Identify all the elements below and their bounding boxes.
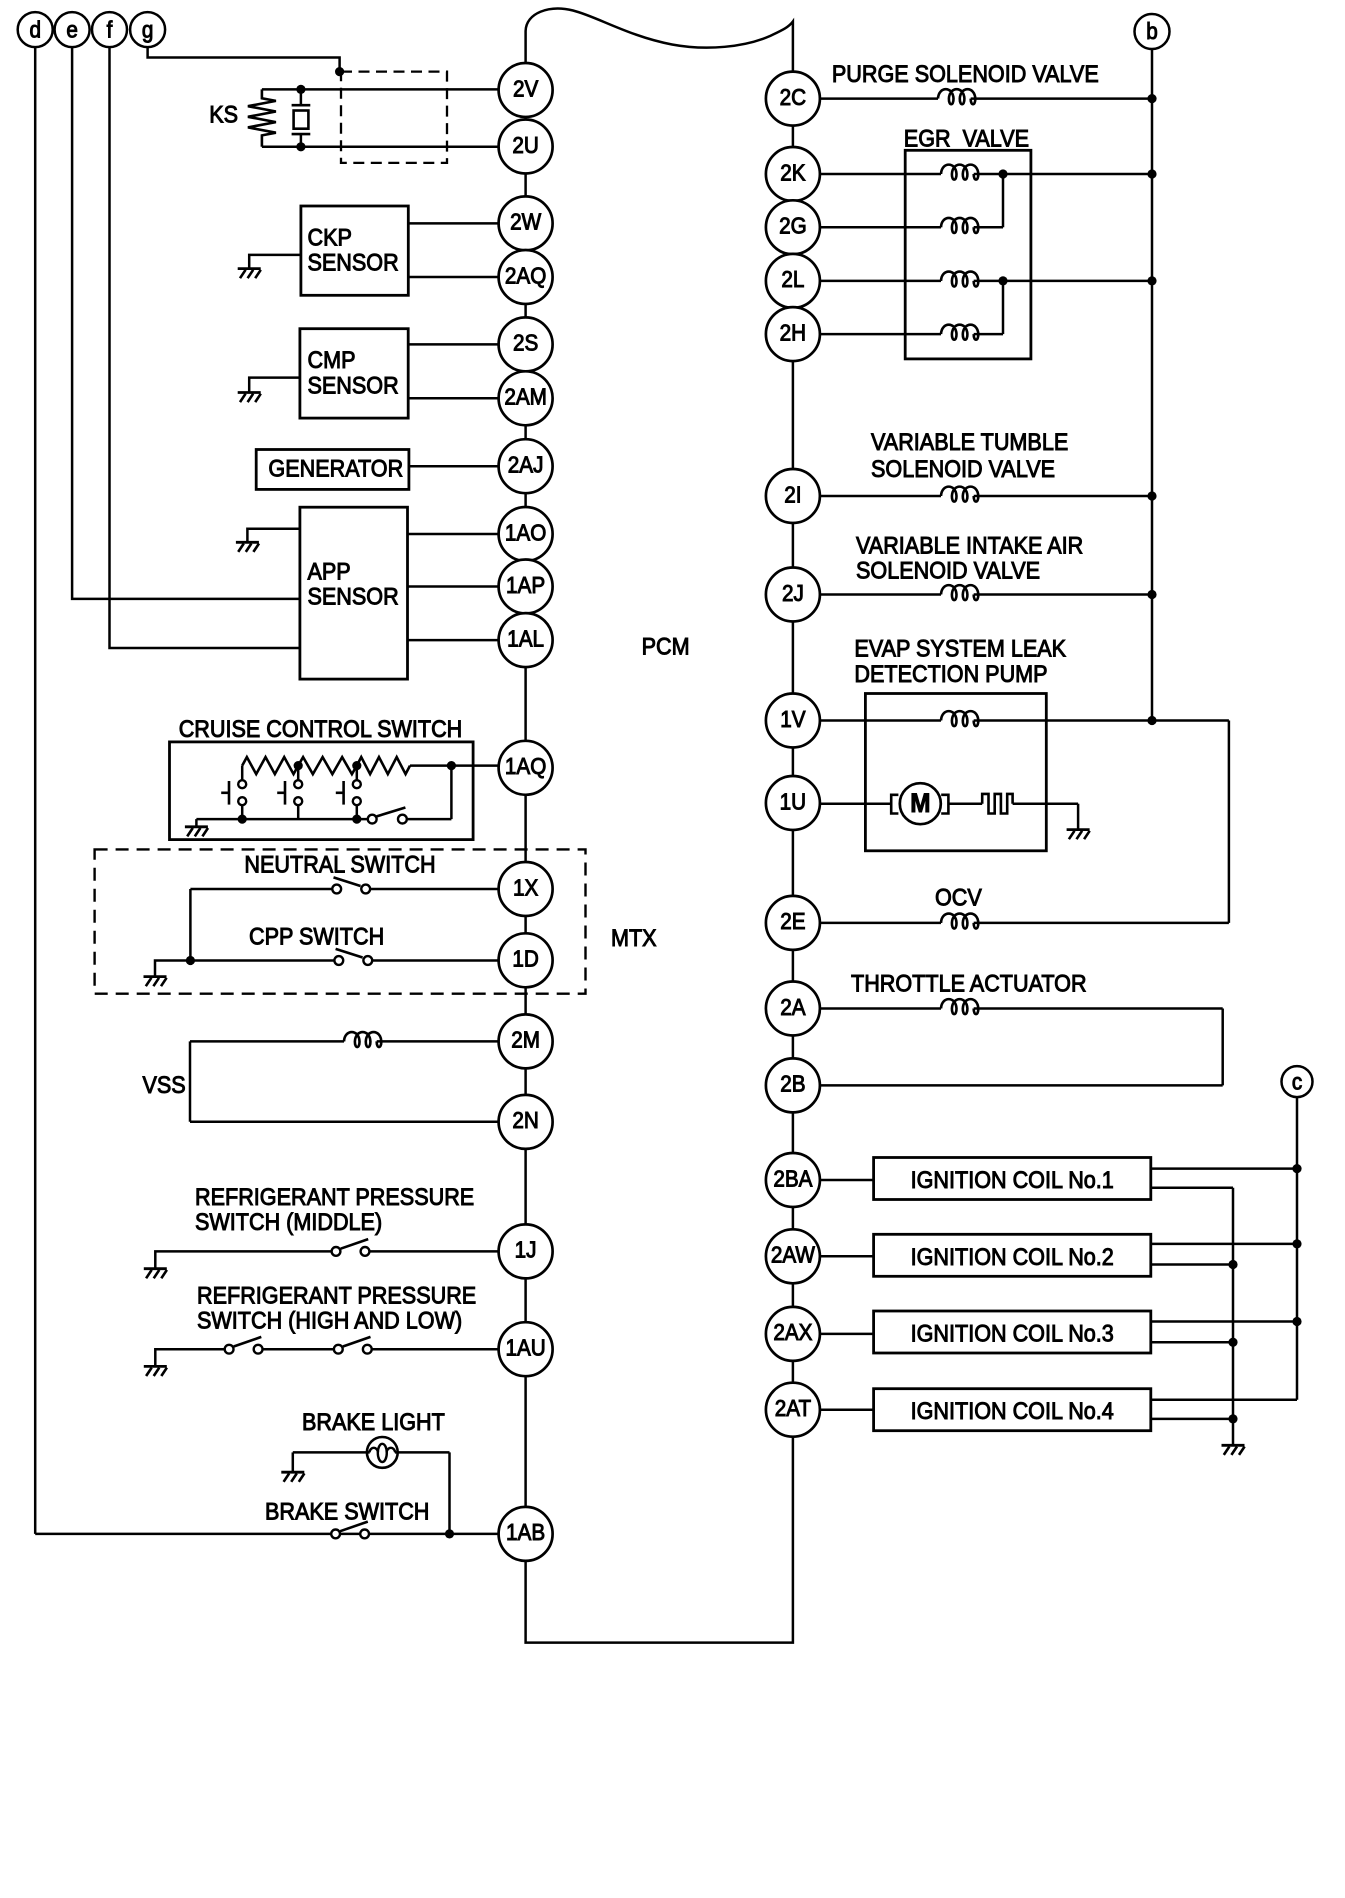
svg-text:2G: 2G — [779, 213, 807, 239]
svg-text:SENSOR: SENSOR — [308, 372, 399, 399]
svg-text:2K: 2K — [780, 159, 806, 185]
svg-text:EVAP SYSTEM LEAK: EVAP SYSTEM LEAK — [854, 634, 1066, 661]
svg-text:REFRIGERANT PRESSURE: REFRIGERANT PRESSURE — [195, 1183, 474, 1210]
svg-text:2N: 2N — [512, 1107, 538, 1133]
svg-text:VSS: VSS — [143, 1071, 186, 1098]
svg-text:2BA: 2BA — [773, 1165, 813, 1191]
svg-text:c: c — [1292, 1068, 1302, 1094]
svg-text:SOLENOID VALVE: SOLENOID VALVE — [871, 455, 1055, 482]
svg-text:CRUISE CONTROL SWITCH: CRUISE CONTROL SWITCH — [179, 715, 463, 742]
svg-text:2L: 2L — [781, 266, 804, 292]
svg-text:2A: 2A — [780, 994, 806, 1020]
svg-text:CMP: CMP — [308, 346, 356, 373]
svg-text:SENSOR: SENSOR — [308, 248, 399, 275]
svg-text:VARIABLE TUMBLE: VARIABLE TUMBLE — [871, 428, 1068, 455]
svg-text:2H: 2H — [780, 319, 806, 345]
svg-text:2E: 2E — [780, 908, 805, 934]
svg-text:THROTTLE ACTUATOR: THROTTLE ACTUATOR — [851, 969, 1087, 996]
svg-text:EGR VALVE: EGR VALVE — [904, 124, 1029, 151]
svg-text:KS: KS — [209, 100, 238, 127]
svg-text:2J: 2J — [782, 580, 804, 606]
svg-text:b: b — [1146, 18, 1158, 44]
svg-text:SWITCH (MIDDLE): SWITCH (MIDDLE) — [195, 1208, 382, 1235]
svg-text:2AW: 2AW — [771, 1242, 815, 1268]
svg-text:2AJ: 2AJ — [508, 451, 544, 477]
svg-text:PURGE SOLENOID VALVE: PURGE SOLENOID VALVE — [832, 60, 1099, 87]
svg-text:SWITCH (HIGH AND LOW): SWITCH (HIGH AND LOW) — [197, 1307, 462, 1334]
svg-text:1J: 1J — [515, 1237, 537, 1263]
svg-text:2U: 2U — [512, 132, 538, 158]
svg-text:2V: 2V — [513, 75, 539, 101]
svg-text:SENSOR: SENSOR — [308, 583, 399, 610]
svg-text:2C: 2C — [780, 84, 806, 110]
svg-text:OCV: OCV — [935, 883, 983, 910]
svg-text:APP: APP — [308, 557, 351, 584]
svg-text:2I: 2I — [784, 481, 801, 507]
svg-text:2B: 2B — [780, 1071, 805, 1097]
svg-text:PCM: PCM — [642, 633, 690, 660]
svg-text:1X: 1X — [513, 874, 539, 900]
svg-text:1AQ: 1AQ — [505, 753, 546, 779]
svg-text:2W: 2W — [510, 209, 541, 235]
svg-text:M: M — [910, 789, 930, 818]
svg-text:GENERATOR: GENERATOR — [268, 454, 403, 481]
svg-text:REFRIGERANT PRESSURE: REFRIGERANT PRESSURE — [197, 1281, 476, 1308]
svg-text:SOLENOID VALVE: SOLENOID VALVE — [856, 556, 1040, 583]
svg-text:2M: 2M — [511, 1027, 540, 1053]
svg-text:1U: 1U — [780, 788, 806, 814]
svg-text:IGNITION COIL No.2: IGNITION COIL No.2 — [911, 1243, 1114, 1270]
svg-text:d: d — [29, 16, 41, 42]
svg-text:1D: 1D — [512, 946, 538, 972]
svg-text:e: e — [66, 16, 78, 42]
svg-text:DETECTION PUMP: DETECTION PUMP — [854, 660, 1047, 687]
svg-text:BRAKE LIGHT: BRAKE LIGHT — [302, 1408, 445, 1435]
svg-text:NEUTRAL SWITCH: NEUTRAL SWITCH — [244, 850, 435, 877]
svg-text:BRAKE SWITCH: BRAKE SWITCH — [265, 1498, 429, 1525]
svg-text:1AB: 1AB — [506, 1519, 545, 1545]
svg-text:f: f — [107, 16, 114, 42]
svg-text:IGNITION COIL No.3: IGNITION COIL No.3 — [911, 1319, 1114, 1346]
svg-text:2S: 2S — [513, 330, 538, 356]
svg-text:2AQ: 2AQ — [505, 262, 546, 288]
svg-text:IGNITION COIL No.4: IGNITION COIL No.4 — [911, 1397, 1114, 1424]
svg-text:2AX: 2AX — [773, 1319, 813, 1345]
svg-text:MTX: MTX — [611, 924, 657, 951]
svg-text:1V: 1V — [780, 706, 806, 732]
svg-text:1AL: 1AL — [507, 625, 544, 651]
svg-text:1AO: 1AO — [505, 519, 546, 545]
svg-text:VARIABLE INTAKE AIR: VARIABLE INTAKE AIR — [856, 531, 1083, 558]
svg-text:2AT: 2AT — [775, 1395, 811, 1421]
svg-text:1AP: 1AP — [506, 572, 545, 598]
svg-text:CKP: CKP — [308, 223, 352, 250]
svg-text:CPP SWITCH: CPP SWITCH — [249, 922, 384, 949]
svg-text:1AU: 1AU — [505, 1334, 545, 1360]
svg-text:g: g — [142, 16, 154, 42]
svg-text:2AM: 2AM — [504, 384, 547, 410]
svg-text:IGNITION COIL No.1: IGNITION COIL No.1 — [911, 1166, 1114, 1193]
